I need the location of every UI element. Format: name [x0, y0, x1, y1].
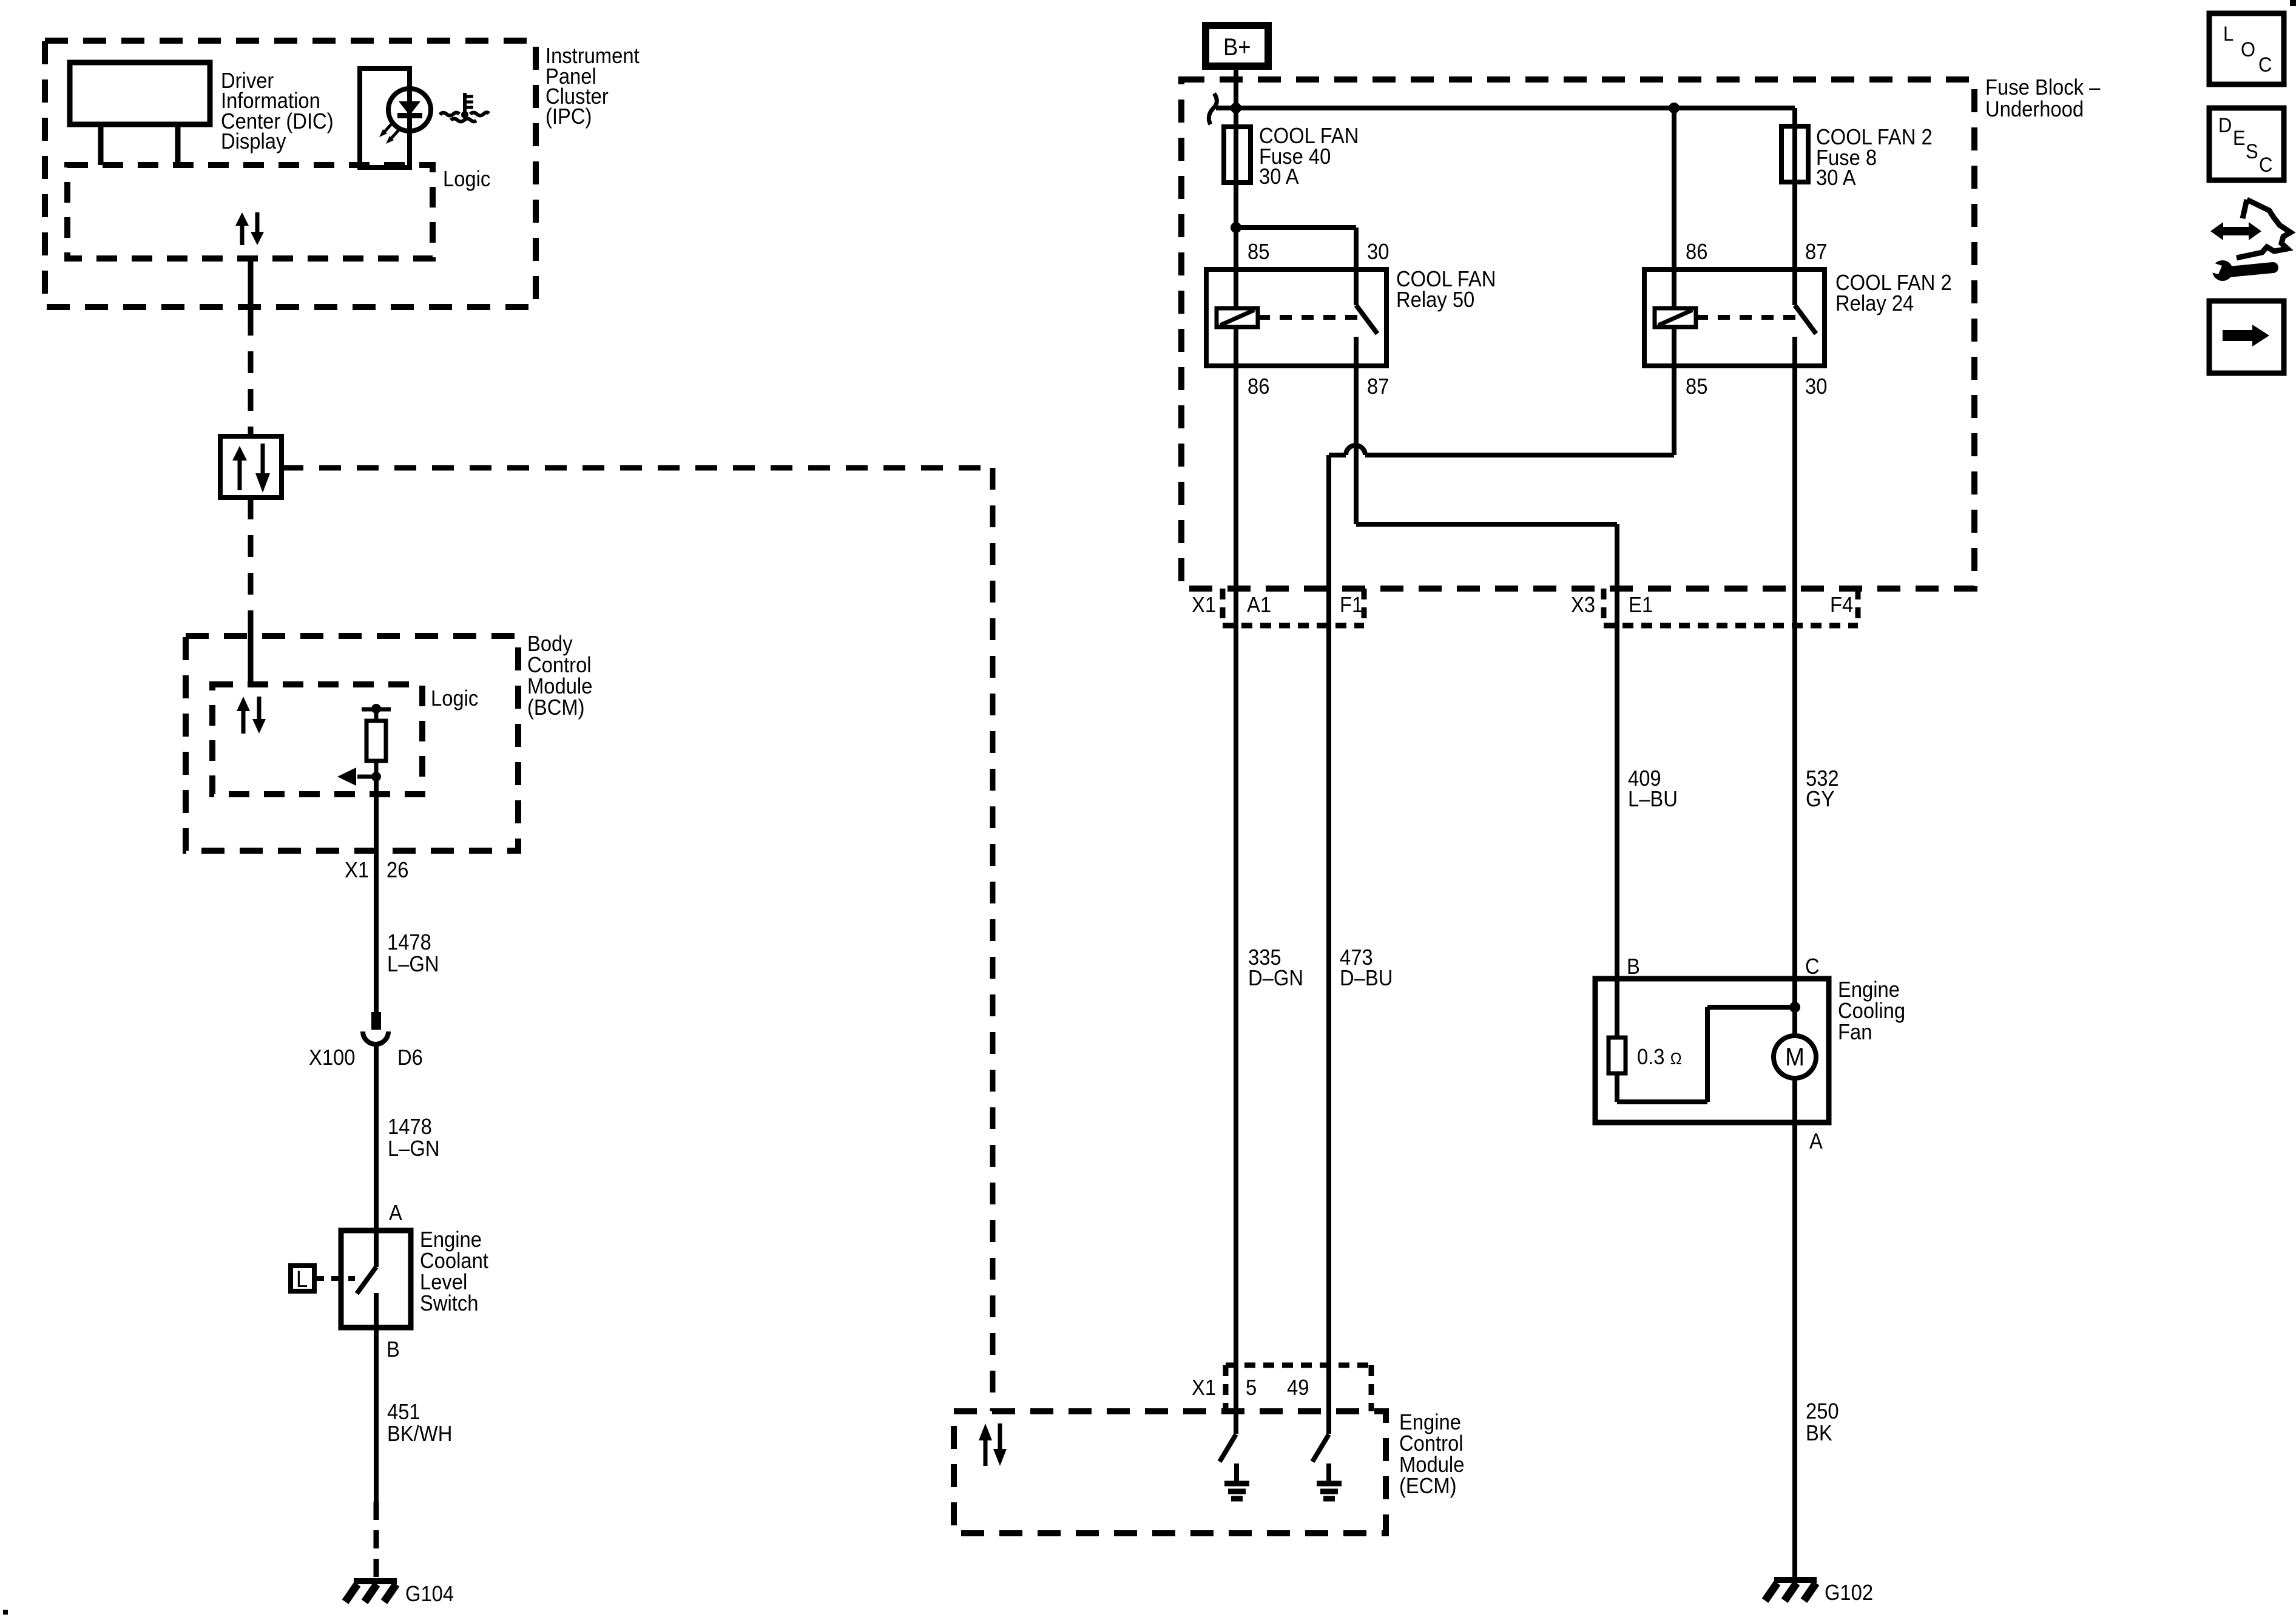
- svg-text:250: 250: [1806, 1400, 1839, 1424]
- connector X100 pin D6: [309, 1012, 423, 1070]
- svg-text:Control: Control: [1399, 1432, 1464, 1456]
- svg-text:Engine: Engine: [420, 1228, 482, 1252]
- svg-text:A1: A1: [1247, 593, 1271, 618]
- svg-text:D6: D6: [397, 1046, 423, 1070]
- fan internal wire: [1617, 1002, 1800, 1102]
- bus wire from B+: [1216, 108, 1795, 126]
- wire: B+ through fuse 40 to relay 50: [1234, 68, 1238, 269]
- svg-text:X3: X3: [1571, 593, 1595, 618]
- module box: Instrument Panel Cluster (IPC): [45, 41, 640, 307]
- connector X3 (fuse block, pins E1 F4): [1571, 589, 1858, 626]
- wire: IPC logic to serial data link: [248, 258, 254, 436]
- svg-text:451: 451: [387, 1400, 420, 1425]
- relay K50: COOL FAN Relay 50: [1206, 240, 1496, 399]
- motor M (fan): [1774, 979, 1816, 1122]
- svg-text:Fuse Block –: Fuse Block –: [1985, 76, 2101, 100]
- svg-text:Body: Body: [527, 632, 573, 657]
- relay 50 contact switch: [1356, 269, 1377, 366]
- svg-text:GY: GY: [1806, 788, 1834, 812]
- wire 1478 L-GN (X100 to switch): [376, 1044, 440, 1267]
- wire label 532 GY: [1806, 767, 1839, 812]
- svg-text:87: 87: [1367, 375, 1389, 399]
- svg-text:1478: 1478: [388, 1115, 432, 1139]
- svg-text:(BCM): (BCM): [527, 696, 585, 720]
- junction node at relay 24 branch: [1669, 103, 1680, 113]
- junction node at fuse 40: [1231, 103, 1241, 113]
- svg-text:O: O: [2241, 38, 2255, 61]
- ground G102: [1765, 1580, 1873, 1605]
- wire: relay 24 pin 30 to connector F4: [1792, 366, 1797, 979]
- svg-text:F1: F1: [1340, 593, 1363, 618]
- connector X1 (ECM, pins 5 49): [1192, 1365, 1371, 1411]
- svg-text:C: C: [1805, 955, 1820, 979]
- svg-text:Module: Module: [527, 675, 592, 699]
- wire: fuse 40 to relay 50: [1231, 222, 1356, 269]
- svg-text:Engine: Engine: [1399, 1411, 1461, 1435]
- svg-text:C: C: [2259, 154, 2272, 177]
- wire: serial data link to ECM (dashed): [282, 468, 993, 1411]
- svg-text:Module: Module: [1399, 1453, 1464, 1477]
- serial data link symbol: [220, 436, 282, 498]
- svg-text:Coolant: Coolant: [420, 1249, 488, 1274]
- svg-text:L: L: [2223, 22, 2234, 46]
- wire: relay 50 pin 86 to connector A1 and down to ECM: [1234, 366, 1238, 1434]
- svg-text:30: 30: [1367, 240, 1389, 265]
- relay 50 coil-contact link (dashed): [1258, 315, 1360, 320]
- svg-text:E: E: [2233, 127, 2246, 150]
- module box: Body Control Module (BCM): [186, 632, 592, 851]
- svg-text:X1: X1: [1192, 593, 1216, 618]
- svg-text:(ECM): (ECM): [1399, 1474, 1457, 1499]
- wire: fuse 8 to relay 24 contact: [1792, 108, 1797, 269]
- svg-text:C: C: [2258, 53, 2272, 76]
- svg-text:Relay 50: Relay 50: [1396, 288, 1474, 312]
- svg-text:0.3 Ω: 0.3 Ω: [1637, 1045, 1682, 1070]
- ECM driver switch (pin 5): [1220, 1434, 1236, 1462]
- svg-text:86: 86: [1248, 375, 1269, 399]
- svg-text:X100: X100: [309, 1046, 355, 1070]
- svg-text:M: M: [1785, 1042, 1805, 1071]
- svg-text:85: 85: [1248, 240, 1269, 265]
- svg-text:Control: Control: [527, 653, 592, 678]
- fuse F8: COOL FAN 2 Fuse 8 30 A: [1781, 126, 1933, 191]
- svg-text:1478: 1478: [387, 931, 431, 955]
- svg-text:G102: G102: [1825, 1581, 1873, 1605]
- icon: DESC box: [2209, 108, 2284, 180]
- Driver Information Center (DIC) Display: [70, 62, 334, 165]
- svg-text:G104: G104: [405, 1582, 454, 1607]
- coolant temperature icon: [440, 93, 489, 122]
- logic box (IPC): [67, 165, 490, 258]
- Engine Coolant Level Switch: [341, 1228, 488, 1328]
- svg-text:S: S: [2246, 140, 2258, 163]
- svg-text:F4: F4: [1830, 593, 1853, 618]
- svg-text:Level: Level: [420, 1271, 467, 1295]
- relay 24 contact switch: [1795, 269, 1816, 366]
- page artifact marks: [3, 1610, 8, 1615]
- wire: relay 24 pin 85 crossover to connector F1 (with hop): [1329, 366, 1674, 1434]
- svg-text:Engine: Engine: [1838, 978, 1900, 1002]
- svg-text:Fan: Fan: [1838, 1021, 1872, 1045]
- svg-text:D: D: [2218, 114, 2232, 137]
- svg-text:BK: BK: [1806, 1422, 1832, 1446]
- svg-text:Logic: Logic: [431, 687, 478, 711]
- battery feed B+: [1206, 25, 1268, 66]
- svg-text:5: 5: [1246, 1376, 1257, 1400]
- svg-text:Switch: Switch: [420, 1292, 478, 1316]
- icon: forward arrow box: [2209, 301, 2284, 373]
- wire: serial data link to BCM (dashed): [248, 498, 254, 684]
- LED indicator (coolant level warning): [360, 69, 431, 167]
- connector X1 (fuse block, pins A1 F1): [1192, 589, 1364, 626]
- svg-text:D–BU: D–BU: [1340, 967, 1393, 991]
- serial data arrows (IPC logic): [235, 212, 264, 245]
- svg-text:86: 86: [1686, 240, 1707, 265]
- svg-text:A: A: [389, 1201, 402, 1226]
- svg-text:L–GN: L–GN: [388, 1137, 440, 1161]
- module box: Engine Control Module (ECM): [954, 1411, 1464, 1533]
- relay 50 coil: [1217, 269, 1258, 366]
- module box: Fuse Block - Underhood: [1181, 76, 2101, 589]
- wire label 473 D-BU: [1340, 946, 1393, 991]
- ECM driver switch (pin 49): [1312, 1434, 1329, 1462]
- svg-text:A: A: [1809, 1130, 1823, 1154]
- bus bar hook symbol: [1209, 93, 1217, 124]
- svg-text:30: 30: [1805, 375, 1827, 399]
- svg-text:Display: Display: [221, 130, 286, 154]
- Engine Cooling Fan: [1595, 978, 1905, 1122]
- svg-text:E1: E1: [1629, 593, 1653, 618]
- svg-text:L: L: [296, 1266, 308, 1292]
- svg-text:B+: B+: [1223, 33, 1251, 61]
- svg-text:49: 49: [1287, 1376, 1309, 1400]
- svg-text:Underhood: Underhood: [1985, 98, 2084, 122]
- serial data arrows (BCM logic): [237, 697, 266, 734]
- svg-text:L–BU: L–BU: [1628, 788, 1678, 812]
- wire 1478 L-GN (BCM to X100): [376, 777, 439, 1012]
- relay 24 coil: [1655, 269, 1696, 366]
- svg-text:Cooling: Cooling: [1838, 999, 1905, 1024]
- icon: LOC box: [2209, 13, 2284, 84]
- svg-text:D–GN: D–GN: [1248, 967, 1303, 991]
- svg-text:B: B: [1627, 955, 1640, 979]
- relay 24 coil-contact link (dashed): [1696, 315, 1798, 320]
- BCM pin X1 26: [345, 859, 408, 883]
- svg-text:Logic: Logic: [443, 167, 490, 192]
- logic box (BCM): [212, 684, 478, 794]
- resistor (BCM pull-up) with output arrow: [337, 704, 391, 786]
- ECM internal ground (pin 5 driver): [1224, 1463, 1249, 1499]
- svg-text:BK/WH: BK/WH: [387, 1422, 452, 1447]
- svg-text:30 A: 30 A: [1816, 166, 1856, 191]
- wire label 409 L-BU: [1628, 767, 1678, 812]
- svg-text:(IPC): (IPC): [545, 105, 592, 129]
- svg-text:85: 85: [1686, 375, 1707, 399]
- svg-text:L–GN: L–GN: [387, 953, 439, 977]
- icon: connector navigation (arrow and wrench): [2207, 200, 2291, 281]
- svg-text:87: 87: [1805, 240, 1827, 265]
- svg-text:X1: X1: [345, 859, 369, 883]
- svg-text:X1: X1: [1192, 1376, 1216, 1400]
- level sensor L box: [291, 1266, 355, 1292]
- ECM internal ground (pin 49 driver): [1317, 1463, 1342, 1499]
- wire: bus branch to relay 24 coil: [1672, 108, 1676, 269]
- wire label 335 D-GN: [1248, 946, 1303, 991]
- wire: relay 50 pin 87 to connector E1: [1356, 366, 1617, 979]
- svg-text:Relay 24: Relay 24: [1835, 292, 1914, 316]
- resistor 0.3 ohm (fan): [1609, 979, 1682, 1073]
- relay K24: COOL FAN 2 Relay 24: [1644, 240, 1952, 399]
- svg-text:26: 26: [387, 859, 408, 883]
- fuse F40: COOL FAN Fuse 40 30 A: [1224, 124, 1359, 189]
- svg-text:30 A: 30 A: [1259, 165, 1299, 189]
- ground G104: [345, 1581, 454, 1606]
- wire 250 BK: [1795, 1122, 1839, 1579]
- svg-text:B: B: [387, 1338, 400, 1362]
- serial data arrows (ECM): [979, 1423, 1007, 1466]
- wire 451 BK/WH: [376, 1293, 452, 1580]
